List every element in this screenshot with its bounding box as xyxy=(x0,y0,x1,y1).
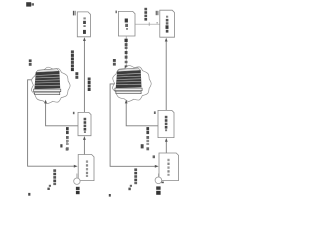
server base band 2 (right) xyxy=(116,91,141,94)
ref numeral below circle (terminal L) xyxy=(76,187,80,194)
vertical text inside terminal R xyxy=(167,159,169,176)
box L-mid (local dns/dispatch, left) xyxy=(78,112,91,135)
label column on L-wire (request text, right) xyxy=(146,127,149,150)
terminal L circle (speaker) xyxy=(74,174,80,185)
terminal R circle (speaker) xyxy=(155,174,162,184)
ref numeral below circle (terminal R) xyxy=(156,182,164,195)
vertical text inside box L-top xyxy=(83,17,86,34)
arrow wire: box R-mid up to box R-top xyxy=(165,38,168,111)
vertical text inside box R-mid xyxy=(165,116,168,131)
label column on L-wire (request text, left) xyxy=(66,127,69,150)
wire L-shape: box L-mid left side up into cloud L (arrow up) xyxy=(44,100,78,126)
tick at left edge of box R-top xyxy=(156,21,158,24)
label column A (redirect dispatch server text) left of wire xyxy=(71,50,74,71)
cloud R (network cloud, right) xyxy=(113,66,152,102)
small marks lower-left of label D xyxy=(47,185,51,190)
box R-cloudtop (content server above cloud, right) xyxy=(118,11,135,36)
arrow wire: terminal L up to box L-mid xyxy=(83,136,86,154)
ref mark top-left of terminal L xyxy=(66,142,68,144)
server base band 1 (right) xyxy=(115,88,142,91)
ref tick at top-left of box L-mid xyxy=(73,112,75,114)
sub-figure dot (b) bottom xyxy=(109,194,111,197)
server stack inside cloud L : top face xyxy=(36,69,60,73)
server base band 1 (left) xyxy=(34,89,61,92)
vertical text inside box R-top xyxy=(166,16,169,33)
box L-top (origin server, left) xyxy=(77,12,90,37)
label (ref numeral) above cloud left xyxy=(29,59,32,65)
vertical text inside box R-cloudtop xyxy=(125,19,128,30)
vertical text inside terminal L xyxy=(86,160,88,177)
label column above that wire (4 chars) xyxy=(144,8,147,21)
label marks at top-left of box L-top xyxy=(73,11,76,16)
wire with text: box R-cloudtop down to cloud R xyxy=(125,36,127,69)
arrow wire: terminal R up to box R-mid xyxy=(165,138,168,153)
ref mark top-left of terminal R xyxy=(153,155,155,158)
wire: cloud L left side down and right to terminal L (arrow right) xyxy=(28,80,78,168)
wire: cloud R left side down and right to terminal R (arrow right) xyxy=(110,84,159,168)
server stack inside cloud L : striped front face xyxy=(34,71,60,89)
label marks at top-left of box R-top xyxy=(156,11,159,15)
box R-bottom terminal body xyxy=(159,153,179,181)
box R-top (origin server, right) xyxy=(160,10,175,37)
box R-mid (dispatch server, right) xyxy=(158,110,174,137)
vertical text on that wire xyxy=(125,39,128,69)
label column D (redirect request text) below arrow, left xyxy=(53,169,56,185)
cloud L (network cloud, left) xyxy=(31,67,70,103)
ref tick top-left of box R-cloudtop xyxy=(116,11,117,14)
server stack inside cloud R : top face xyxy=(117,68,141,72)
label column C (4 chars) right of wire xyxy=(88,78,91,92)
figure number label (rotated 图9) top-left xyxy=(26,2,34,6)
arrow wire: box L-mid up to box L-top xyxy=(83,37,86,112)
ref tick at top-left of box R-mid xyxy=(154,111,156,114)
vertical text inside box L-mid xyxy=(84,118,87,133)
floating ref numeral between cloud line and box (left) xyxy=(60,144,68,150)
wire L-shape: box R-mid left side up into cloud R (arrow up) xyxy=(125,100,158,126)
server base band 2 (left) xyxy=(35,92,60,95)
box L-bottom terminal body xyxy=(78,155,94,181)
sub-figure dot (a) bottom left xyxy=(28,193,30,196)
small marks lower-left of label D' xyxy=(128,185,132,190)
label 2-char left of cloud-top (right half) xyxy=(113,59,116,66)
floating ref numeral between cloud line and box (right) xyxy=(141,144,144,148)
label column B (2 chars, second line of label) xyxy=(75,72,78,79)
wire: box R-cloudtop right to box R-top xyxy=(135,22,160,25)
server stack inside cloud R : striped front face xyxy=(116,70,142,88)
label column D' (redirect request text) below arrow, right xyxy=(134,168,137,184)
